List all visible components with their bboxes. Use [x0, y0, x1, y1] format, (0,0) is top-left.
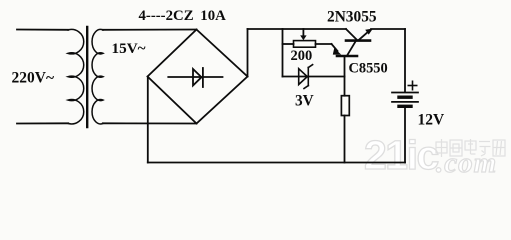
- wire: R2 bottom lead to bottom rail: [344, 116, 346, 163]
- wire: bottom rail (negative): [148, 162, 405, 164]
- wire: bridge DC- (left corner) down to bottom rail: [147, 77, 149, 163]
- diode symbol inside bridge: [168, 68, 222, 87]
- transistor Q1 2N3055: emitter with arrow to rail: [359, 29, 374, 41]
- svg-text:.com: .com: [436, 147, 497, 179]
- battery BT1 plus sign: [408, 81, 416, 89]
- svg-text:2N3055: 2N3055: [327, 9, 377, 26]
- wire: secondary top to bridge AC1 (top corner): [103, 29, 197, 31]
- svg-text:C8550: C8550: [349, 61, 388, 77]
- svg-text:4----2CZ: 4----2CZ: [139, 8, 194, 24]
- svg-text:10A: 10A: [200, 8, 226, 24]
- transistor Q2 C8550: emitter diagonal with arrow: [332, 44, 342, 55]
- wire: battery positive lead from rail: [404, 29, 406, 92]
- svg-text:200: 200: [291, 48, 313, 64]
- wire: secondary bottom to bridge AC2 (bottom corner): [103, 122, 197, 124]
- wire: battery negative lead to bottom rail: [404, 108, 406, 163]
- transistor Q2 C8550: base bar: [337, 55, 357, 58]
- wire: rheostat left lead: [283, 43, 294, 45]
- svg-text:21ic: 21ic: [364, 132, 438, 178]
- svg-text:220V~: 220V~: [12, 70, 55, 87]
- wire: zener branch horizontal: [283, 76, 345, 78]
- rheostat R1 wiper arrow from top rail: [300, 29, 306, 40]
- transistor Q1 2N3055: base bar: [346, 39, 370, 42]
- transformer T1 primary winding: [68, 29, 84, 123]
- wire: top positive rail to 2N3055 collector: [248, 28, 347, 30]
- svg-text:12V: 12V: [418, 112, 446, 129]
- transistor Q2 C8550: collector diagonal to Q1 base: [348, 42, 356, 55]
- wire: mains L input to primary top: [17, 29, 68, 31]
- wire: mains N input to primary bottom: [17, 122, 68, 124]
- wire: C8550 base lead down: [344, 57, 346, 95]
- transformer T1 core: [86, 27, 88, 127]
- rheostat R1 200 ohm body: [294, 41, 316, 48]
- wire: bridge DC+ (right corner) riser: [247, 29, 249, 77]
- svg-text:3V: 3V: [295, 93, 314, 110]
- transformer T1 secondary winding: [92, 29, 103, 123]
- node: junction at x=282.5 down to rheostat / zener: [282, 29, 284, 77]
- watermark 21ic.com 中国电子网: [364, 132, 505, 179]
- wire: top rail from Q1 emitter to battery +: [371, 28, 405, 30]
- transistor Q1 2N3055: collector from rail: [346, 29, 357, 40]
- resistor R2 body (vertical): [341, 96, 349, 116]
- svg-text:15V~: 15V~: [112, 40, 146, 57]
- battery BT1 12V plates: [392, 93, 418, 107]
- zener diode D1 3V: [299, 65, 313, 89]
- wire: rheostat right lead to C8550 emitter: [316, 43, 332, 45]
